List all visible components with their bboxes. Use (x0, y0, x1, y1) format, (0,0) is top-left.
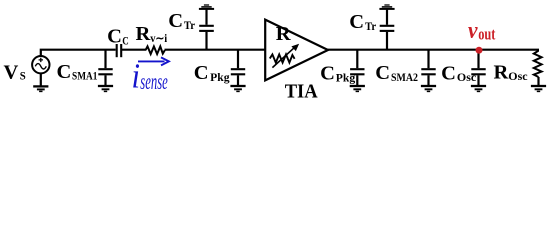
variable resistor zigzag inside TIA (270, 54, 295, 62)
ground under C_SMA1 (98, 86, 113, 91)
svg-text:SMA1: SMA1 (72, 70, 98, 82)
wire rail segment from R_v-i to TIA input (165, 49, 267, 51)
wire rail segment from C_C to R_v-i (122, 49, 146, 51)
ground under R_Osc (531, 86, 546, 91)
svg-text:V: V (4, 61, 19, 83)
wire source bottom to ground (40, 73, 42, 85)
svg-text:Osc: Osc (508, 71, 527, 83)
svg-text:C: C (107, 25, 122, 47)
resistor R_Osc (vertical zigzag to ground) (534, 50, 542, 86)
capacitor C_Tr second (shunt to top ground) (380, 10, 395, 49)
svg-text:C: C (320, 62, 335, 84)
svg-text:TIA: TIA (285, 81, 318, 102)
wire rail segment from TIA output to R_Osc corner (327, 49, 539, 51)
svg-text:C: C (194, 62, 209, 84)
svg-text:v∼i: v∼i (150, 33, 168, 45)
capacitor C_SMA1 (shunt to ground) (98, 49, 112, 85)
svg-text:C: C (375, 62, 390, 84)
svg-text:C: C (122, 35, 129, 47)
svg-text:R: R (494, 61, 509, 83)
svg-text:out: out (478, 25, 495, 44)
wire from source V_S up to input rail, then rail to C_C left plate (41, 50, 116, 56)
ground under C_Pkg second (350, 86, 365, 91)
svg-text:Osc: Osc (457, 72, 476, 84)
svg-text:R: R (136, 23, 151, 45)
svg-text:Tr: Tr (365, 21, 376, 33)
svg-text:v: v (468, 18, 478, 44)
svg-text:S: S (20, 71, 26, 83)
ground under C_Osc (471, 86, 486, 91)
svg-text:C: C (349, 11, 364, 33)
svg-text:sense: sense (140, 69, 168, 94)
svg-text:Pkg: Pkg (210, 72, 230, 84)
svg-text:C: C (441, 62, 456, 84)
source V_S sine wave (35, 64, 46, 69)
svg-text:i: i (132, 56, 141, 95)
ground under C_SMA2 (421, 86, 436, 91)
capacitor C_C (series coupling, vertical plates in rail) (117, 44, 122, 57)
capacitor C_Tr first (shunt to top ground) (199, 10, 214, 49)
svg-text:C: C (168, 10, 183, 32)
svg-text:Tr: Tr (184, 20, 195, 32)
capacitor C_Pkg second (shunt to ground) (350, 49, 364, 85)
op-amp U1 TIA triangle (265, 20, 328, 81)
svg-text:SMA2: SMA2 (391, 72, 418, 84)
variable resistor arrow inside TIA (272, 45, 298, 68)
ground under source V_S (33, 86, 48, 91)
svg-text:Pkg: Pkg (336, 72, 356, 84)
capacitor C_Osc (shunt to ground) (471, 49, 485, 85)
source V_S circle (32, 56, 49, 73)
svg-text:R: R (276, 23, 291, 45)
capacitor C_SMA2 (shunt to ground) (421, 49, 435, 85)
ground above C_Tr first (inverted) (199, 5, 214, 9)
capacitor C_Pkg first (shunt to ground) (231, 49, 245, 85)
ground above C_Tr second (inverted) (379, 5, 394, 9)
resistor R_v-i (series zigzag in rail) (146, 46, 165, 54)
svg-text:C: C (57, 61, 72, 83)
ground under C_Pkg first (230, 86, 245, 91)
arrow i_sense (blue current direction) (138, 57, 169, 65)
source V_S plus sign (39, 58, 43, 62)
node v_out (red junction dot on rail) (476, 47, 483, 54)
